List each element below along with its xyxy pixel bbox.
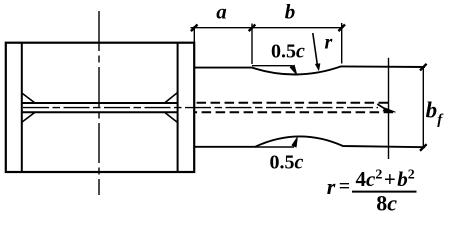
tick at bottom of b_f: [420, 144, 427, 151]
column vertical centerline: [98, 11, 100, 195]
svg-text:0.5c: 0.5c: [270, 151, 304, 173]
0.5c top arrow: [290, 65, 297, 76]
dimension line a-b: [191, 27, 344, 29]
through plate top edge (solid): [22, 102, 178, 104]
weld fillet upper-right: [165, 93, 178, 104]
svg-text:b: b: [426, 98, 438, 123]
svg-text:r: r: [325, 32, 333, 54]
svg-text:=: =: [339, 175, 350, 197]
r leader arrow: [315, 64, 320, 71]
column outer rectangle: [6, 43, 194, 172]
beam flange bottom edge with RBS curve: [195, 136, 425, 147]
weld fillet lower-left: [22, 112, 35, 122]
tick at x=252: [249, 25, 256, 32]
svg-text:4c2+b2: 4c2+b2: [356, 167, 415, 191]
column left flange inner line: [21, 43, 23, 172]
0.5c top leader: [252, 65, 293, 67]
tick at x=194: [191, 25, 198, 32]
beam flange top edge with RBS curve: [195, 66, 425, 74]
0.5c bottom leader: [255, 146, 294, 148]
svg-text:0.5c: 0.5c: [271, 40, 305, 62]
column right flange inner line: [177, 43, 179, 172]
extension line at RBS end: [341, 23, 343, 64]
r leader: [313, 33, 318, 65]
beam break symbol arrowhead: [383, 108, 395, 112]
svg-text:a: a: [216, 0, 227, 23]
tick at x=341.7: [338, 25, 345, 32]
beam horizontal centerline: [23, 107, 378, 109]
tick at top of b_f: [420, 64, 427, 71]
beam web hidden top line: [195, 102, 388, 104]
0.5c bottom arrow: [292, 137, 298, 148]
beam web hidden bottom line: [195, 111, 393, 113]
weld fillet upper-left: [22, 93, 35, 103]
svg-text:b: b: [285, 0, 296, 23]
svg-text:8c: 8c: [376, 191, 397, 216]
beam break symbol jog: [377, 104, 384, 108]
svg-text:r: r: [327, 174, 336, 199]
b_f dimension line: [422, 67, 424, 147]
extension line at column face: [193, 26, 195, 43]
weld fillet lower-right: [165, 112, 178, 122]
fraction bar: [352, 191, 417, 193]
through plate bottom edge (solid): [22, 111, 178, 113]
extension line at RBS start: [251, 24, 253, 65]
section line at b_f: [388, 58, 390, 159]
